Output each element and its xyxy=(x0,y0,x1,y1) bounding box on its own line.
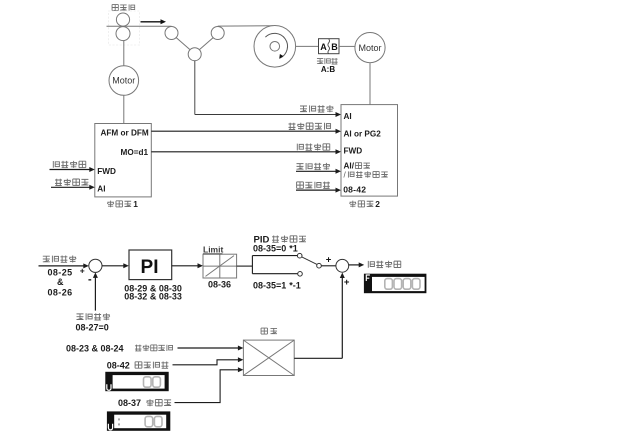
svg-text:AI: AI xyxy=(97,185,105,194)
label & xyxy=(57,277,64,287)
limit block xyxy=(203,254,237,278)
svg-text:AI or PG2: AI or PG2 xyxy=(344,129,382,138)
plus sign at S2 bottom xyxy=(344,277,350,288)
wire tension feedback up to S1 xyxy=(93,272,98,310)
drive2 pin 08-42 xyxy=(343,185,366,195)
label: roll diameter source (CJK) xyxy=(297,182,330,189)
wire tension command to AI/comm xyxy=(296,169,341,174)
roll diameter display U00 xyxy=(105,372,168,391)
label 08-27=0 xyxy=(76,323,109,333)
label: main frequency (CJK) xyxy=(261,328,277,334)
svg-text:+: + xyxy=(326,255,332,266)
svg-text:08-35=0 *1: 08-35=0 *1 xyxy=(253,243,298,253)
drive2 pin FWD xyxy=(344,147,363,156)
web line left xyxy=(107,25,172,27)
wire gearbox to motor2 xyxy=(339,45,355,47)
drive2 pin AI/comm (CJK) xyxy=(344,162,370,171)
drive2 pin AI xyxy=(344,112,352,121)
label PID output frequency xyxy=(254,235,307,246)
drive2 pin /digital keypad (CJK) xyxy=(344,171,388,180)
wire drum to gearbox xyxy=(296,45,319,47)
switch common contact xyxy=(317,263,322,268)
plus sign at S1 xyxy=(80,265,85,275)
wire motor1 to drive1 xyxy=(123,95,125,123)
label: tension command into drive2 (CJK) xyxy=(297,163,330,170)
svg-text:AI/: AI/ xyxy=(344,162,355,171)
wire AFM to AI or PG2 xyxy=(151,129,341,134)
label A:B xyxy=(321,65,335,74)
web direction arrow xyxy=(141,19,167,24)
drive1 pin FWD xyxy=(97,167,116,176)
gearbox A:B box xyxy=(319,39,340,54)
nip roller top xyxy=(116,13,129,26)
drive 2 box xyxy=(341,105,398,197)
label: run command into drive2 (CJK) xyxy=(297,144,330,151)
svg-text:+: + xyxy=(344,277,350,288)
wire S1 to PI xyxy=(102,263,129,268)
wire tension command to summer xyxy=(39,263,89,268)
drive2 pin AI or PG2 xyxy=(344,129,382,138)
minus sign at S1 xyxy=(88,274,92,286)
motor M1 xyxy=(109,66,139,96)
wire switch to S2 xyxy=(321,265,335,267)
label 08-23 & 08-24 + mech gear ratio (CJK) xyxy=(66,343,173,353)
label: tension feedback top (CJK) xyxy=(300,105,333,112)
wire line speed to multiplier xyxy=(175,367,244,402)
svg-text:08-23 & 08-24: 08-23 & 08-24 xyxy=(66,343,124,353)
switch upper contact xyxy=(297,253,302,258)
svg-text:Motor: Motor xyxy=(358,43,381,53)
label Limit xyxy=(203,245,223,255)
switch branch vertical xyxy=(251,256,253,274)
svg-text:FWD: FWD xyxy=(344,147,363,156)
web span roller1-dancer xyxy=(176,38,190,50)
label: gear ratio (CJK) xyxy=(317,58,338,64)
label 08-42 + roll diameter source (CJK) xyxy=(107,360,169,370)
switch lower branch xyxy=(252,273,297,275)
wire roll diameter to multiplier xyxy=(173,357,244,365)
svg-text:08-32 & 08-33: 08-32 & 08-33 xyxy=(124,291,182,301)
label 08-35=1 *-1 xyxy=(253,281,301,291)
wire PI to limit xyxy=(172,263,203,268)
wire S2 to frequency command xyxy=(349,262,365,267)
svg-text:08-26: 08-26 xyxy=(48,287,73,297)
svg-text:08-35=1 *-1: 08-35=1 *-1 xyxy=(253,281,301,291)
svg-text:08-36: 08-36 xyxy=(208,279,231,289)
label: frequency command (CJK) xyxy=(368,261,401,268)
web line right xyxy=(218,25,274,27)
wire multiplier output to S2 line xyxy=(294,357,342,359)
label: frequency setting (CJK) xyxy=(55,179,88,186)
svg-text:2: 2 xyxy=(375,199,380,209)
svg-text:AI: AI xyxy=(344,112,352,121)
traction machine dashed outline xyxy=(109,11,140,45)
summer S1 xyxy=(89,259,102,272)
winder drum xyxy=(254,26,296,68)
svg-text:08-42: 08-42 xyxy=(343,185,366,195)
svg-text:AFM or DFM: AFM or DFM xyxy=(101,129,149,138)
svg-text:&: & xyxy=(57,277,64,287)
wire limit out xyxy=(237,265,253,267)
label: drive 1 (CJK + 1) xyxy=(107,199,138,209)
drive1 pin AFM or DFM xyxy=(101,129,149,138)
guide roller 1 xyxy=(165,27,178,40)
svg-text:08-42: 08-42 xyxy=(107,360,130,370)
switch lower contact xyxy=(298,272,303,277)
nip roller bottom xyxy=(116,27,130,41)
svg-text:08-37: 08-37 xyxy=(118,398,141,408)
label 08-36 xyxy=(208,279,231,289)
label: tension command (CJK) xyxy=(43,256,76,263)
frequency display F0000 xyxy=(364,274,427,294)
line speed display U:00 xyxy=(107,411,170,430)
wire MO=d1 to FWD xyxy=(151,149,341,154)
label 08-29 & 08-30 xyxy=(124,283,182,293)
switch lever xyxy=(302,257,317,265)
wire run command to FWD xyxy=(50,167,95,172)
label: drive 2 (CJK + 2) xyxy=(350,199,381,209)
wire motor2 to drive2 xyxy=(369,63,371,105)
svg-text:Motor: Motor xyxy=(112,76,135,86)
svg-text:A: A xyxy=(320,42,327,52)
label: run command into drive1 (CJK) xyxy=(53,161,86,168)
drum rotation arrow xyxy=(265,33,287,59)
dancer roller xyxy=(188,48,201,61)
label: tension feedback (CJK) xyxy=(77,313,110,320)
PI block xyxy=(129,250,172,280)
svg-text:MO=d1: MO=d1 xyxy=(121,148,149,157)
label 08-32 & 08-33 xyxy=(124,291,182,301)
svg-text:-: - xyxy=(88,274,92,286)
drive 1 box xyxy=(95,124,152,197)
svg-text:B: B xyxy=(331,42,338,52)
label: traction machine (CJK) xyxy=(112,4,135,10)
svg-text:1: 1 xyxy=(133,199,138,209)
label: line speed input (CJK) xyxy=(289,123,331,130)
drive1 pin MO=d1 xyxy=(121,148,149,157)
wire gear ratio to multiplier xyxy=(178,346,244,351)
svg-text:FWD: FWD xyxy=(97,167,116,176)
plus sign at S2 left xyxy=(326,255,332,266)
wire nip to motor1 xyxy=(123,41,125,66)
wire main freq up to S2 xyxy=(340,273,345,359)
wire frequency setting to AI xyxy=(51,185,95,190)
svg-text:PI: PI xyxy=(141,257,159,278)
wire dancer to drive2 AI xyxy=(195,61,341,117)
guide roller 2 xyxy=(211,27,224,40)
wire roll diameter source to 08-42 xyxy=(296,188,341,193)
multiplier block xyxy=(243,340,294,375)
svg-text:08-27=0: 08-27=0 xyxy=(76,323,109,333)
label 08-35=0 *1 xyxy=(253,243,298,253)
label 08-25 xyxy=(48,268,73,278)
label 08-26 xyxy=(48,287,73,297)
web span dancer-roller2 xyxy=(199,38,213,50)
summer S2 xyxy=(336,259,349,272)
svg-text:A:B: A:B xyxy=(321,65,335,74)
svg-text:Limit: Limit xyxy=(203,245,223,255)
switch upper branch xyxy=(252,255,297,257)
motor M2 xyxy=(355,33,385,63)
drive1 pin AI xyxy=(97,185,105,194)
label 08-37 + line speed (CJK) xyxy=(118,398,171,408)
svg-text:+: + xyxy=(80,265,85,275)
